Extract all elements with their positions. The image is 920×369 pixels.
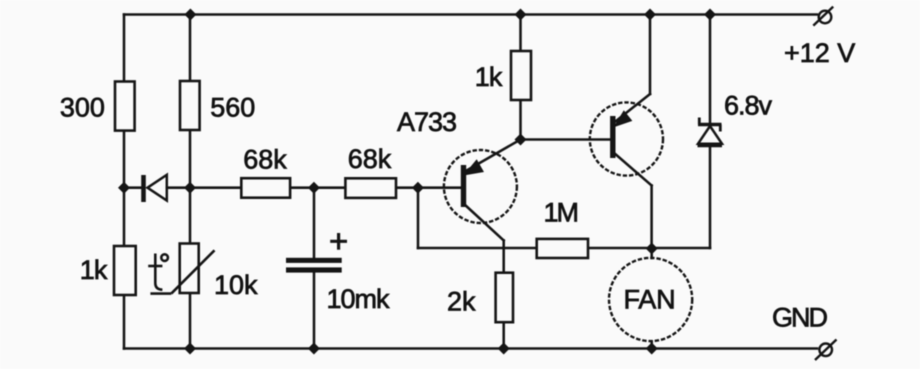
svg-text:1k: 1k xyxy=(80,255,108,285)
svg-text:68k: 68k xyxy=(243,145,287,175)
svg-text:1M: 1M xyxy=(544,198,578,228)
svg-text:10mk: 10mk xyxy=(327,284,391,314)
svg-text:+12 V: +12 V xyxy=(784,38,855,68)
svg-text:FAN: FAN xyxy=(624,285,676,315)
svg-text:6.8v: 6.8v xyxy=(724,91,773,121)
svg-text:300: 300 xyxy=(60,92,105,122)
svg-text:560: 560 xyxy=(210,93,255,123)
svg-text:10k: 10k xyxy=(214,270,258,300)
svg-text:2k: 2k xyxy=(447,286,476,316)
svg-text:1k: 1k xyxy=(475,62,503,92)
svg-text:A733: A733 xyxy=(397,107,456,137)
svg-text:GND: GND xyxy=(772,302,828,332)
svg-text:68k: 68k xyxy=(348,144,392,174)
